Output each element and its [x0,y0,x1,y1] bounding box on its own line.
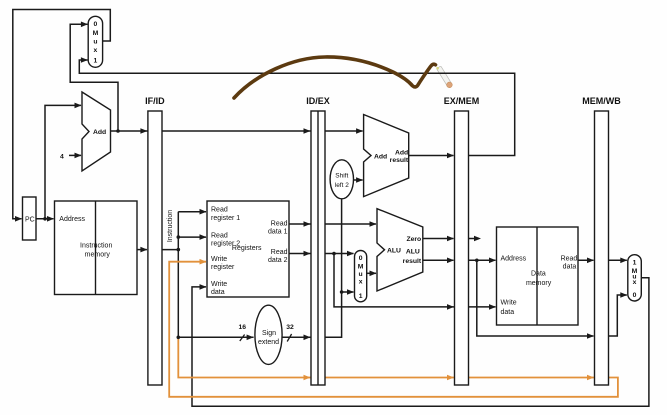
alu src mux [355,251,367,302]
wire: to sign extend [178,336,253,338]
shift left 2 ellipse [330,160,353,199]
svg-text:x: x [633,279,637,286]
wire: read data 2 branch to memory write data [334,254,496,307]
svg-text:IF/ID: IF/ID [145,96,165,106]
junction: PC output node [43,217,47,221]
wire: read data 1 to ALU [289,223,376,225]
svg-text:Instruction: Instruction [80,242,112,249]
wire: instruction memory output to IF/ID [137,249,147,251]
data memory box [497,227,579,325]
wire: branch Add result to EX/MEM and back to pc mux [79,60,514,156]
svg-text:Address: Address [501,256,527,263]
wire: shift left 2 to branch Add [353,179,362,181]
wire: to read register 1 [178,211,206,213]
pencil cursor icon [436,66,453,89]
svg-text:data: data [211,289,225,296]
wire: sign extend output to ID/EX [282,199,342,338]
wire: ALU mux output to ALU [367,272,376,274]
svg-text:0: 0 [633,292,637,299]
svg-text:Write: Write [211,256,227,263]
svg-text:Add: Add [395,149,408,156]
svg-text:4: 4 [60,154,64,161]
svg-text:Instruction: Instruction [167,210,174,242]
registers box [207,201,289,297]
svg-text:32: 32 [286,324,294,331]
svg-text:ID/EX: ID/EX [306,96,330,106]
sign extend ellipse [255,305,282,364]
junction: sign-extended immediate node [340,290,344,294]
mux labels [93,21,638,300]
svg-text:data 2: data 2 [268,257,288,264]
svg-text:Read: Read [211,207,228,214]
svg-text:Read: Read [271,220,288,227]
adder branch target [364,115,409,197]
wire: Add output to mux 0 input [70,24,118,131]
svg-text:Add: Add [93,129,106,136]
junction: read data 2 node [332,252,336,256]
svg-text:Shift: Shift [335,173,348,180]
bus width slashes [240,334,292,342]
svg-text:Address: Address [59,216,85,223]
instruction memory box [55,201,138,295]
adder PC+4 [82,92,111,171]
svg-text:memory: memory [526,280,552,287]
wire: sign extend branch to ALU mux 1 [342,291,354,293]
svg-text:16: 16 [239,324,247,331]
wire: ALU zero out [423,238,479,240]
wire: PC to Add [45,105,81,218]
svg-text:1: 1 [633,260,637,267]
svg-text:u: u [359,271,363,278]
wire: constant 4 to Add [69,154,81,156]
wire: data memory read data to MEM/WB [578,259,627,261]
svg-text:data 1: data 1 [268,229,288,236]
pipeline register MEM/WB [595,111,609,385]
svg-text:Read: Read [211,232,228,239]
junction: instruction bus main node [177,248,181,252]
svg-text:result: result [403,258,422,265]
svg-text:x: x [94,47,98,54]
wire: ALU result from MEM/WB to mux 0 [609,295,627,336]
pipeline register EX/MEM [455,111,469,385]
svg-text:1: 1 [94,58,98,65]
svg-text:data: data [501,309,515,316]
junction: PC+4 node [116,129,120,133]
svg-text:Sign: Sign [262,330,276,337]
wire: instruction vertical bus [177,212,179,338]
wire: ALU result to data memory address [423,259,496,261]
svg-text:Write: Write [211,281,227,288]
pc mux [88,16,102,67]
junction: instruction immediate field node [177,336,181,340]
svg-text:x: x [359,279,363,286]
svg-text:0: 0 [359,255,363,262]
svg-text:1: 1 [359,293,363,300]
wire: ALU result bypass to MEM/WB [477,260,594,336]
wire: PC output to instruction memory [36,218,54,220]
wire: pc mux output to PC [13,10,111,219]
pen annotation stroke [234,57,436,98]
junction: ALU result node [475,259,479,263]
svg-text:Read: Read [561,255,578,262]
svg-text:register 1: register 1 [211,215,240,222]
wire: write register number through pipeline (orange) [169,262,618,397]
svg-text:M: M [93,30,99,37]
svg-text:Registers: Registers [232,245,262,252]
svg-text:Zero: Zero [406,236,421,243]
wire: instruction bus from IF/ID [162,249,178,251]
svg-text:Write: Write [501,300,517,307]
svg-text:Data: Data [531,271,546,278]
svg-text:data: data [563,264,577,271]
svg-text:ALU: ALU [406,249,420,256]
svg-text:result: result [390,157,409,164]
ALU [377,209,423,291]
svg-text:M: M [358,264,364,271]
svg-text:memory: memory [85,251,111,258]
svg-text:Read: Read [271,249,288,256]
write back mux [628,255,642,301]
svg-text:left 2: left 2 [335,182,349,189]
wire: to read register 2 [178,236,206,238]
svg-text:u: u [93,39,97,46]
svg-text:0: 0 [94,21,98,28]
arrowheads orange [200,259,595,380]
pipeline register ID/EX [311,111,325,385]
svg-text:register: register [211,264,235,271]
wire: read data 2 to mux [289,253,354,255]
svg-text:extend: extend [258,339,279,346]
junction: instruction bus to read register 2 [177,235,181,239]
svg-text:MEM/WB: MEM/WB [582,96,621,106]
svg-text:Add: Add [374,154,387,161]
wire: write back mux output to register write data [192,278,649,407]
wire: PC+4 to IF/ID and branch Add [118,130,363,132]
arrowheads black [15,22,627,341]
svg-text:PC: PC [25,217,35,224]
svg-text:ALU: ALU [387,248,401,255]
svg-text:EX/MEM: EX/MEM [444,96,480,106]
PC box [23,197,37,240]
